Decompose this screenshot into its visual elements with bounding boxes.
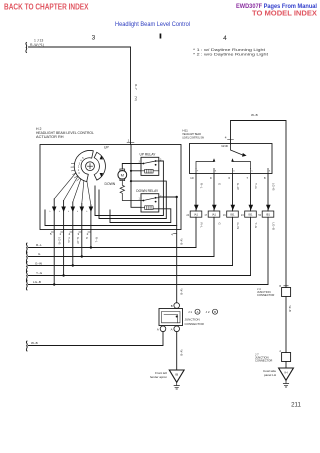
svg-text:8: 8 bbox=[264, 176, 266, 180]
arrow on lead 5 bbox=[52, 207, 57, 213]
svg-text:R–L: R–L bbox=[36, 243, 42, 247]
offsheet brace LG-B bbox=[25, 280, 28, 290]
potentiometer scale numbers bbox=[78, 158, 84, 175]
svg-text:50: 50 bbox=[258, 214, 261, 217]
svg-text:6: 6 bbox=[228, 176, 230, 180]
wire J4 to J7 bbox=[285, 297, 287, 353]
potentiometer left crescent bbox=[74, 150, 93, 181]
arrow on lead 1 bbox=[61, 207, 66, 213]
wire actuator lead 5 to bus bbox=[53, 230, 55, 285]
svg-text:Y–G: Y–G bbox=[254, 183, 258, 190]
svg-text:B: B bbox=[215, 171, 217, 173]
junction dot G bbox=[81, 255, 83, 257]
tiny terminal marks bbox=[50, 211, 88, 213]
arrow on lead 3 bbox=[80, 207, 85, 213]
svg-text:* 1 : w/ Daytime Running Light: * 1 : w/ Daytime Running Light bbox=[193, 48, 266, 52]
connector arrow 2 bbox=[212, 205, 217, 210]
wire code labels above connectors bbox=[200, 183, 276, 190]
pin circle A left bbox=[157, 326, 166, 332]
wire switch drop 2 bbox=[213, 217, 215, 256]
pin ticks H2 bottom bbox=[51, 231, 90, 233]
svg-text:CONNECTOR: CONNECTOR bbox=[255, 359, 272, 363]
TOP FEED bbox=[26, 39, 138, 145]
svg-text:A: A bbox=[197, 310, 199, 314]
svg-text:P: P bbox=[197, 171, 199, 173]
svg-text:DOWN RELAY: DOWN RELAY bbox=[136, 189, 159, 193]
svg-text:LG–B: LG–B bbox=[33, 280, 41, 284]
svg-text:4: 4 bbox=[225, 136, 227, 140]
wire relay feed vertical bbox=[131, 145, 141, 208]
pin numbers relay DOWN bbox=[138, 195, 162, 200]
svg-text:b: b bbox=[86, 211, 87, 213]
relay DOWN coil bbox=[141, 206, 153, 210]
bus LG-B bbox=[29, 280, 269, 285]
junction feed branch bbox=[130, 180, 132, 182]
wire feed horizontal bbox=[29, 46, 131, 48]
wire J7 to ground bbox=[285, 362, 287, 369]
component label H2 bbox=[36, 127, 94, 139]
wire J5 to ground bbox=[176, 332, 178, 370]
component box H2 bbox=[40, 145, 181, 230]
legend J5 circled B bbox=[206, 309, 218, 314]
wire switch lead 4 bbox=[250, 174, 252, 212]
bus G bbox=[29, 252, 215, 257]
label J7 bbox=[255, 352, 272, 362]
junction dot LG-B bbox=[53, 283, 55, 285]
svg-text:UP: UP bbox=[104, 146, 109, 150]
center hub bbox=[86, 162, 95, 171]
rotor arrow down bbox=[100, 173, 103, 177]
wire feed to up coil bbox=[131, 170, 141, 172]
svg-text:J 1: J 1 bbox=[188, 310, 192, 314]
svg-text:1: 1 bbox=[78, 170, 80, 172]
junction connector box 3 bbox=[223, 211, 238, 217]
wire switch drop 1 bbox=[195, 217, 197, 247]
wire down contact to WB bbox=[159, 196, 177, 198]
connector arrow 1 bbox=[194, 205, 199, 210]
svg-text:CONNECTOR: CONNECTOR bbox=[257, 293, 274, 297]
bus Y-G bbox=[29, 271, 251, 276]
wire up contact wrap bbox=[95, 161, 163, 216]
junction feed up coil bbox=[130, 170, 132, 172]
svg-text:G–W: G–W bbox=[236, 183, 240, 190]
svg-text:Y–G: Y–G bbox=[36, 271, 43, 275]
switch bracket left bbox=[196, 158, 215, 168]
relay box DOWN bbox=[141, 194, 159, 212]
svg-text:9: 9 bbox=[210, 176, 212, 180]
svg-text:7: 7 bbox=[246, 176, 248, 180]
svg-text:IB1: IB1 bbox=[249, 213, 253, 217]
offsheet brace Y-G bbox=[25, 271, 28, 281]
svg-text:W–B: W–B bbox=[251, 113, 258, 117]
ground left bbox=[169, 370, 184, 389]
svg-text:C: C bbox=[251, 171, 253, 173]
connector box J4 bbox=[279, 285, 290, 297]
zone divider mark bbox=[160, 34, 162, 39]
rotor right crescent bbox=[94, 152, 105, 180]
svg-text:W–B: W–B bbox=[31, 341, 38, 345]
wire actuator lead 2 to bus bbox=[90, 230, 92, 248]
svg-text:0: 0 bbox=[79, 173, 81, 175]
svg-text:10: 10 bbox=[190, 176, 194, 180]
svg-text:* 2 : w/o Daytime Running Ligh: * 2 : w/o Daytime Running Light bbox=[193, 53, 269, 57]
svg-text:W–B: W–B bbox=[180, 350, 184, 356]
wire code labels below H2 bbox=[58, 237, 99, 244]
connector arrow 5 bbox=[266, 205, 271, 210]
svg-text:5: 5 bbox=[50, 232, 52, 236]
junction connector box 5 bbox=[258, 211, 273, 217]
label J4 bbox=[257, 287, 274, 297]
svg-text:Y–G: Y–G bbox=[67, 237, 71, 244]
svg-text:B: B bbox=[214, 310, 216, 314]
svg-text:IB1: IB1 bbox=[231, 213, 235, 217]
svg-text:G: G bbox=[218, 183, 222, 186]
svg-text:d: d bbox=[59, 211, 60, 213]
HEADER bbox=[4, 2, 317, 56]
svg-text:2: 2 bbox=[78, 167, 80, 169]
legend junction connector text bbox=[185, 318, 205, 326]
wire W-B return bus bbox=[29, 332, 164, 346]
svg-text:J 2: J 2 bbox=[206, 310, 210, 314]
legend J5 circled A bbox=[188, 309, 200, 314]
terminal letters H11 bbox=[197, 171, 271, 173]
svg-text:IA1: IA1 bbox=[194, 213, 198, 217]
motor M1 bbox=[118, 169, 127, 181]
svg-text:R–L: R–L bbox=[94, 237, 98, 243]
junction dot Y-G bbox=[62, 274, 64, 276]
svg-text:R–L: R–L bbox=[200, 183, 204, 189]
junction WB node bbox=[176, 196, 178, 198]
wiper fan wires bbox=[54, 173, 91, 205]
connector arrow 3 bbox=[231, 205, 236, 210]
svg-text:LG–B: LG–B bbox=[272, 223, 276, 230]
svg-text:B: B bbox=[171, 304, 173, 308]
relay DOWN contact bbox=[141, 197, 159, 203]
bus R-L bbox=[29, 243, 197, 248]
svg-text:16: 16 bbox=[223, 214, 226, 217]
junction dot G-W bbox=[72, 264, 74, 266]
svg-text:IA1: IA1 bbox=[212, 213, 216, 217]
potentiometer ticks bbox=[71, 163, 80, 181]
arrow on lead 4 bbox=[71, 207, 76, 213]
svg-text:3: 3 bbox=[78, 232, 80, 236]
svg-text:A: A bbox=[157, 327, 159, 331]
bus G-W bbox=[29, 261, 233, 265]
offsheet brace R-L bbox=[25, 243, 28, 253]
junction connector box 1 bbox=[186, 211, 201, 217]
svg-text:4: 4 bbox=[223, 35, 227, 42]
svg-text:GND: GND bbox=[221, 144, 229, 148]
relay UP coil bbox=[141, 169, 159, 173]
svg-text:panel LH: panel LH bbox=[264, 373, 276, 377]
svg-text:TO MODEL INDEX: TO MODEL INDEX bbox=[252, 9, 317, 18]
svg-text:M: M bbox=[121, 173, 124, 178]
svg-text:B: B bbox=[269, 171, 271, 173]
svg-text:W–B: W–B bbox=[180, 289, 184, 295]
wire switch drop 3 bbox=[232, 217, 234, 265]
svg-text:W–B: W–B bbox=[288, 306, 292, 312]
offsheet brace W-B bbox=[25, 341, 28, 351]
ground right label bbox=[263, 369, 276, 377]
svg-text:G–W: G–W bbox=[35, 261, 42, 265]
svg-text:4: 4 bbox=[171, 233, 173, 237]
svg-text:W–B: W–B bbox=[180, 239, 184, 245]
svg-text:CONNECTOR: CONNECTOR bbox=[185, 322, 205, 326]
ground left label bbox=[150, 371, 167, 379]
svg-text:4: 4 bbox=[69, 232, 71, 236]
wire actuator lead 3 to bus bbox=[81, 230, 83, 257]
wire switch lead 2 bbox=[213, 174, 215, 212]
svg-text:(*2): (*2) bbox=[134, 96, 138, 101]
wire actuator lead 1 to bus bbox=[63, 230, 65, 276]
wire motor to up relay contact bbox=[122, 164, 141, 170]
svg-text:23: 23 bbox=[241, 214, 244, 217]
connector arrow 4 bbox=[249, 205, 254, 210]
svg-text:fender apron: fender apron bbox=[150, 375, 167, 379]
pin circle B top bbox=[171, 303, 180, 309]
wire down coil wrap bbox=[110, 209, 171, 223]
ground right bbox=[279, 368, 294, 387]
pin numbers relay UP bbox=[138, 158, 162, 163]
wire pot leads bbox=[54, 199, 91, 230]
svg-text:D: D bbox=[233, 171, 235, 173]
pin numbers H11 bottom bbox=[190, 176, 266, 180]
svg-text:b: b bbox=[68, 211, 69, 213]
switch contact posts bbox=[196, 168, 268, 173]
wire feed wrap bbox=[99, 181, 166, 218]
svg-text:B: B bbox=[279, 285, 281, 288]
svg-text:BACK TO CHAPTER INDEX: BACK TO CHAPTER INDEX bbox=[4, 2, 89, 11]
junction dot R-L bbox=[90, 246, 92, 248]
svg-text:LG–B: LG–B bbox=[58, 237, 62, 244]
component box H11 bbox=[190, 144, 273, 174]
svg-text:2: 2 bbox=[87, 232, 89, 236]
relay box UP bbox=[141, 157, 159, 175]
wire switch drop 4 bbox=[250, 217, 252, 275]
junction connector box 2 bbox=[204, 211, 219, 217]
svg-text:UP RELAY: UP RELAY bbox=[140, 153, 157, 157]
wire W-B to J5 bbox=[176, 197, 178, 303]
component label H11 bbox=[182, 129, 204, 140]
svg-text:1: 1 bbox=[128, 139, 130, 143]
svg-text:ACTUATOR RH: ACTUATOR RH bbox=[36, 135, 64, 139]
rotor arrow up bbox=[100, 155, 103, 159]
svg-text:17: 17 bbox=[204, 214, 207, 217]
svg-text:R–Y: R–Y bbox=[134, 84, 138, 90]
svg-text:Headlight Beam Level Control: Headlight Beam Level Control bbox=[115, 21, 190, 28]
svg-text:1 J 13: 1 J 13 bbox=[34, 39, 43, 43]
switch bracket right bbox=[231, 158, 250, 168]
wire actuator lead 4 to bus bbox=[72, 230, 74, 266]
svg-text:3: 3 bbox=[92, 35, 96, 42]
junction connector box 4 bbox=[241, 211, 256, 217]
svg-text:24: 24 bbox=[186, 214, 189, 217]
connector box J5 bbox=[159, 309, 183, 326]
svg-text:b: b bbox=[50, 211, 51, 213]
svg-text:LEVEL CONTROL SW: LEVEL CONTROL SW bbox=[182, 136, 204, 140]
offsheet brace G-W bbox=[25, 262, 28, 272]
svg-text:IH: IH bbox=[285, 370, 288, 374]
svg-text:G: G bbox=[85, 237, 89, 240]
svg-text:LG–B: LG–B bbox=[272, 183, 276, 190]
relay UP contact bbox=[141, 160, 159, 166]
svg-text:1: 1 bbox=[59, 232, 61, 236]
offsheet brace bbox=[25, 43, 28, 53]
svg-text:G–W: G–W bbox=[76, 237, 80, 244]
svg-text:211: 211 bbox=[291, 402, 301, 409]
svg-text:IB1: IB1 bbox=[266, 213, 270, 217]
svg-text:A: A bbox=[279, 350, 281, 353]
arrow on lead 2 bbox=[89, 207, 94, 213]
wire switch drop 5 bbox=[267, 217, 269, 284]
pin circle A right bbox=[171, 326, 180, 332]
svg-text:G: G bbox=[38, 252, 41, 256]
svg-text:DOWN: DOWN bbox=[105, 182, 116, 186]
offsheet brace G bbox=[25, 252, 28, 262]
svg-text:Y–G: Y–G bbox=[254, 223, 258, 230]
svg-text:G–W: G–W bbox=[236, 223, 240, 230]
svg-text:IB: IB bbox=[175, 372, 178, 376]
wire switch lead 5 bbox=[267, 174, 269, 212]
connector box J7 bbox=[279, 350, 290, 362]
wire GND top run bbox=[231, 121, 287, 288]
wire switch lead 3 bbox=[232, 174, 234, 212]
pin numbers H2 bottom bbox=[50, 232, 89, 236]
wire pot return wrap bbox=[45, 210, 177, 226]
resistor R1 bbox=[120, 181, 141, 201]
wire code labels below connectors bbox=[200, 223, 276, 230]
svg-text:A: A bbox=[171, 327, 173, 331]
wire feed drop bbox=[130, 47, 132, 145]
svg-text:d: d bbox=[77, 211, 78, 213]
svg-text:G: G bbox=[218, 223, 222, 226]
switch lever bbox=[231, 144, 247, 157]
svg-text:3: 3 bbox=[79, 163, 81, 165]
wire switch lead 1 bbox=[195, 174, 197, 212]
svg-text:R–L: R–L bbox=[200, 223, 204, 229]
pin 4 W-B of H2 bbox=[171, 233, 177, 237]
